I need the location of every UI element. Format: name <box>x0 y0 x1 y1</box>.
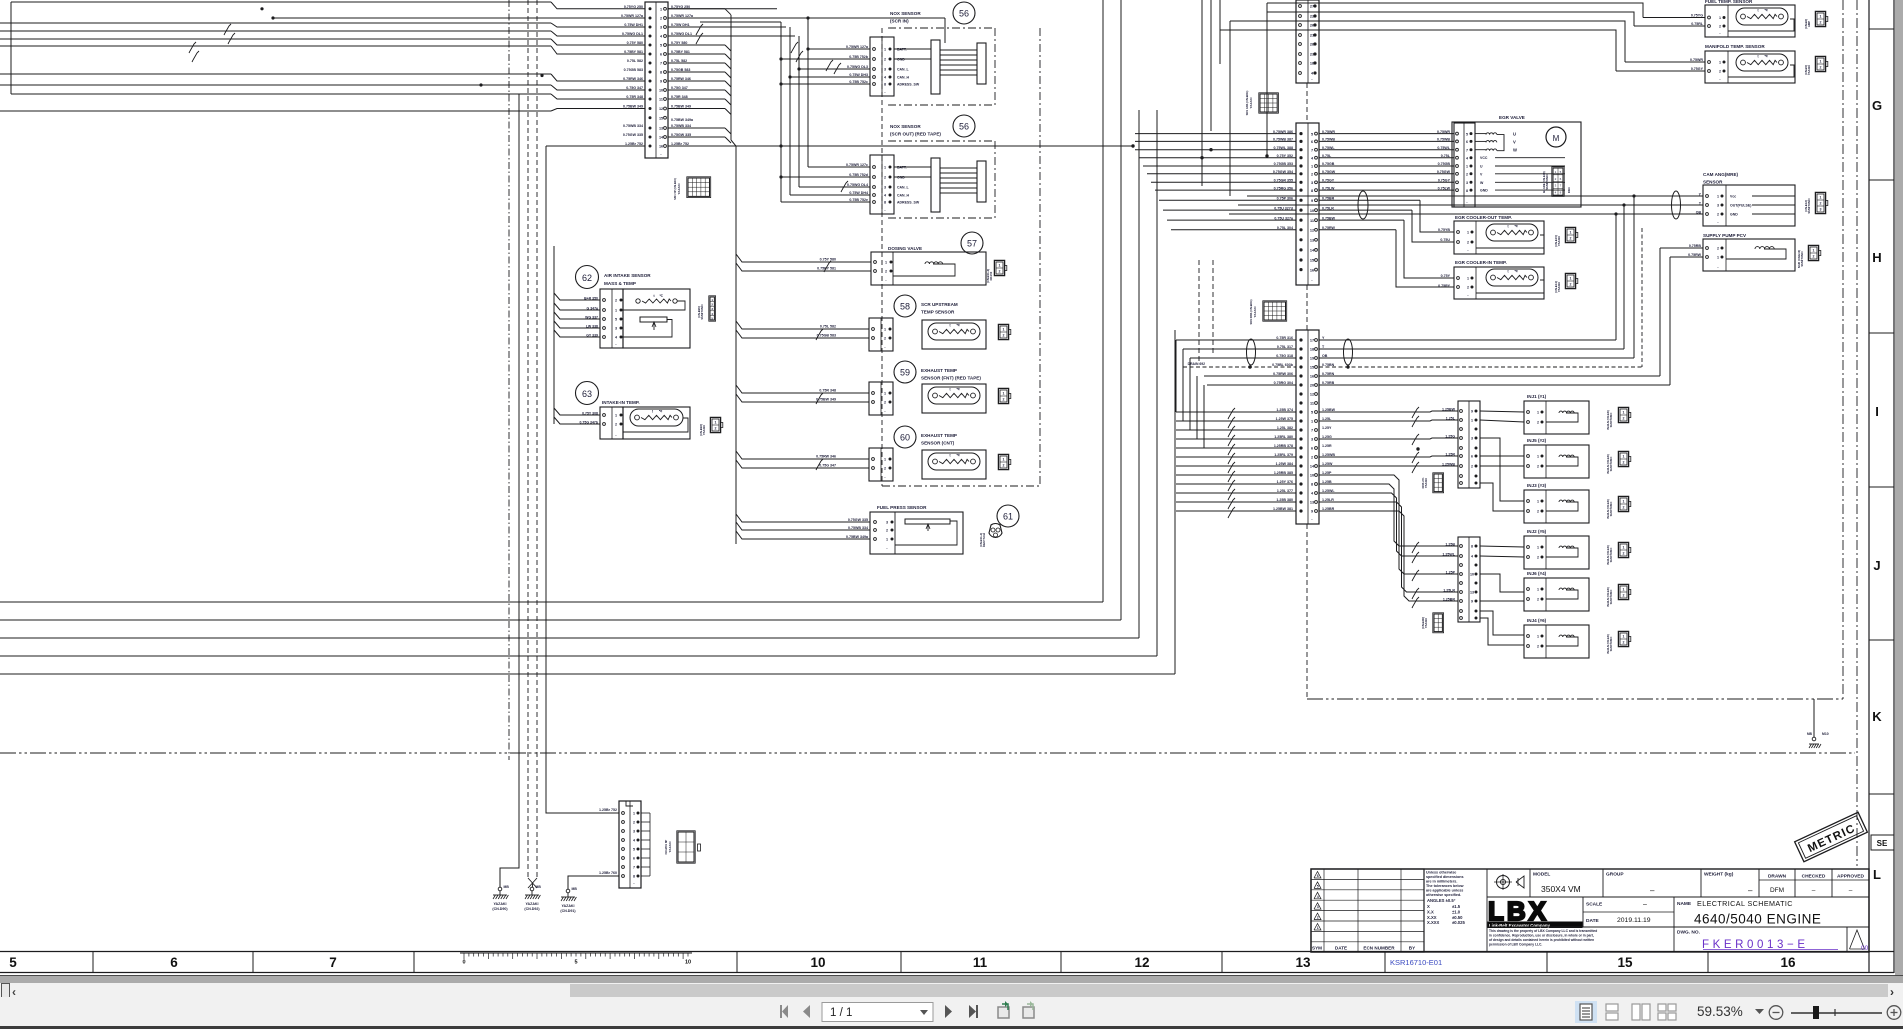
C4 right wires rows 17-20 with corners <box>1319 339 1616 341</box>
svg-text:3: 3 <box>884 68 886 72</box>
svg-text:0.75WR: 0.75WR <box>1690 58 1703 62</box>
connector table CN.ENG SM1 DNS mid <box>1263 301 1287 321</box>
svg-text:8: 8 <box>884 83 886 87</box>
svg-text:0: 0 <box>462 960 465 966</box>
C1 pin 11 <box>649 98 652 101</box>
NOX pin 2 <box>873 58 876 61</box>
svg-text:EGR COOLER-IN TEMP.: EGR COOLER-IN TEMP. <box>1455 260 1507 265</box>
svg-text:-: - <box>884 409 886 413</box>
svg-text:1: 1 <box>1537 500 1539 504</box>
svg-text:MB: MB <box>536 885 542 889</box>
wire ground D91 to connector G1 pin8 <box>568 876 619 889</box>
CAM wire shield ellipse <box>1358 191 1368 219</box>
svg-text:0.75L 582: 0.75L 582 <box>820 325 836 329</box>
svg-text:3: 3 <box>1466 181 1468 185</box>
svg-text:(CN.B20): (CN.B20) <box>697 306 701 318</box>
svg-text:13: 13 <box>1310 501 1314 505</box>
svg-text:-: - <box>884 208 886 212</box>
injector INJ6 (#4) coil <box>1559 588 1574 590</box>
svg-text:-: - <box>1717 220 1719 224</box>
svg-text:11: 11 <box>1310 219 1314 223</box>
svg-text:MASS & TEMP: MASS & TEMP <box>604 281 636 286</box>
C4 pin 10 <box>1299 473 1302 476</box>
drawn checked approved boxes <box>1759 879 1869 881</box>
svg-text:2: 2 <box>1719 70 1721 74</box>
svg-text:1: 1 <box>1317 926 1319 930</box>
svg-text:6: 6 <box>1311 140 1313 144</box>
wires mid connector A to INJ5 <box>1480 455 1524 457</box>
svg-text:8: 8 <box>884 201 886 205</box>
SE box <box>1871 835 1894 850</box>
svg-text:8: 8 <box>660 71 662 75</box>
vertical bus x=1139 <box>1138 110 1140 638</box>
svg-text:(SCR IN): (SCR IN) <box>890 19 909 24</box>
svg-text:14: 14 <box>1310 465 1315 469</box>
svg-text:SENSOR: SENSOR <box>1703 180 1723 185</box>
svg-text:3: 3 <box>1311 438 1313 442</box>
dashed enclosure left edge x=882 <box>881 28 883 486</box>
manifold temp wires <box>1625 61 1705 63</box>
svg-text:NOX SENSOR: NOX SENSOR <box>890 11 921 16</box>
svg-text:I: I <box>1875 404 1879 419</box>
C4 pin 11 <box>1299 401 1302 404</box>
riser CAM GND to C4 row17 <box>1615 214 1617 340</box>
svg-text:EGR VALVE: EGR VALVE <box>1499 115 1525 120</box>
svg-text:5: 5 <box>1466 132 1468 136</box>
svg-text:(CN.E6): (CN.E6) <box>1804 19 1808 29</box>
scrollbar top border <box>0 975 1903 977</box>
svg-text:(CN.E12): (CN.E12) <box>1804 200 1808 212</box>
junction dots near C1 <box>260 7 263 10</box>
svg-text:1: 1 <box>884 328 886 332</box>
svg-text:61: 61 <box>1003 512 1013 522</box>
svg-text:1.25Br 760: 1.25Br 760 <box>599 871 617 875</box>
svg-text:YAZAKI: YAZAKI <box>525 902 538 906</box>
wire GY 339 to air intake sensor <box>554 330 600 337</box>
bottom dark band <box>0 1026 1903 1029</box>
svg-text:t: t <box>1507 225 1509 229</box>
svg-text:SENSOR (FNT) (RED TAPE): SENSOR (FNT) (RED TAPE) <box>921 376 981 381</box>
svg-text:K: K <box>1872 709 1882 724</box>
svg-text:YAZAKI: YAZAKI <box>1253 306 1257 317</box>
svg-text:4: 4 <box>1471 555 1473 559</box>
svg-text:16: 16 <box>1310 268 1314 272</box>
svg-text:IN.RLN (CN.E3I): IN.RLN (CN.E3I) <box>1606 499 1610 519</box>
vertical bus x=1175 <box>1174 330 1176 674</box>
svg-text:0.75WR: 0.75WR <box>1437 130 1450 134</box>
svg-text:2: 2 <box>1311 173 1313 177</box>
svg-text:12: 12 <box>1310 229 1314 233</box>
svg-text:(CN.E5): (CN.E5) <box>1804 65 1808 75</box>
svg-text:U: U <box>1480 165 1483 169</box>
svg-text:1: 1 <box>615 309 617 313</box>
svg-text:5: 5 <box>633 848 635 852</box>
vertical cable bus dashed x=537 <box>536 0 538 878</box>
connector table YAZAKI CN.ENG near G1 <box>677 831 695 863</box>
svg-text:4: 4 <box>1311 72 1314 76</box>
EGR cooler-in connector icon <box>1565 273 1575 288</box>
dosing valve connector icon <box>994 260 1004 275</box>
svg-text:7: 7 <box>329 955 337 970</box>
svg-text:DWG. NO.: DWG. NO. <box>1677 930 1700 936</box>
svg-text:58: 58 <box>900 302 910 312</box>
svg-text:NAME: NAME <box>1677 901 1692 907</box>
svg-text:1: 1 <box>715 421 717 425</box>
wire from left edge y=111 <box>0 110 551 112</box>
svg-text:YAZAKI: YAZAKI <box>561 904 574 908</box>
svg-text:0.75G 347: 0.75G 347 <box>626 86 643 90</box>
fuel temp sensor block <box>1705 5 1795 37</box>
svg-text:4: 4 <box>1311 492 1314 496</box>
svg-text:DFM: DFM <box>1770 887 1784 894</box>
svg-text:2: 2 <box>1317 916 1319 920</box>
svg-text:0.75Y 580: 0.75Y 580 <box>820 258 836 262</box>
svg-text:2: 2 <box>884 467 886 471</box>
fuel temp wires <box>1643 17 1705 19</box>
svg-text:0.75RW: 0.75RW <box>1688 253 1702 257</box>
svg-text:IN.RLN (CN.E3I): IN.RLN (CN.E3I) <box>1606 634 1610 654</box>
injector INJ3 (#3) connector icon <box>1618 496 1628 511</box>
wire 1.25Br 752 row16 <box>546 145 645 147</box>
svg-text:CAN_H: CAN_H <box>897 193 910 197</box>
svg-text:1: 1 <box>1003 328 1005 332</box>
svg-text:2: 2 <box>885 270 887 274</box>
intake-in temp circle 63 <box>576 382 599 405</box>
svg-text:permission of LBX Company LLC.: permission of LBX Company LLC. <box>1489 943 1542 947</box>
svg-text:2: 2 <box>1717 213 1719 217</box>
svg-text:16: 16 <box>1780 955 1796 970</box>
svg-text:AIR INTAKE SENSOR: AIR INTAKE SENSOR <box>604 273 651 278</box>
wire bus bottom-left horizontals to middle verticals <box>0 601 1103 603</box>
intake-in temp connector <box>600 407 623 439</box>
svg-text:1: 1 <box>1537 588 1539 592</box>
fuel temp connector icon <box>1815 11 1825 26</box>
wire row2 long to x=945 <box>668 17 945 19</box>
svg-text:10: 10 <box>659 89 663 93</box>
svg-text:0.75G 347: 0.75G 347 <box>819 464 836 468</box>
svg-text:18: 18 <box>1310 62 1314 66</box>
svg-text:2: 2 <box>1623 641 1625 645</box>
C4 pin 6 <box>1299 446 1302 449</box>
right chevron scrollbar <box>1890 985 1894 999</box>
CAM sensor wires <box>1247 195 1703 197</box>
svg-text:(SCR OUT) (RED TAPE): (SCR OUT) (RED TAPE) <box>890 132 941 137</box>
C1 pin 12 <box>649 107 652 110</box>
svg-text:DOSING VALVE: DOSING VALVE <box>888 246 922 251</box>
svg-text:-: - <box>884 345 886 349</box>
svg-text:1: 1 <box>1466 165 1468 169</box>
svg-text:2: 2 <box>1537 598 1539 602</box>
air intake mass element (potentiometer) <box>640 317 667 322</box>
C1 pin 2 <box>649 17 652 20</box>
svg-text:IN.RLN (CN.E3I): IN.RLN (CN.E3I) <box>1606 545 1610 565</box>
fuel press sensor block <box>870 512 963 554</box>
svg-text:9: 9 <box>1311 510 1313 514</box>
C1 fan cascade vertical x=731 <box>730 15 732 140</box>
svg-text:–: – <box>1643 901 1647 908</box>
svg-text:0.75YG 250: 0.75YG 250 <box>624 5 643 9</box>
projection symbol box <box>1529 869 1531 897</box>
net 127 vertical x=808 from C1 row2 <box>807 18 809 167</box>
svg-text:ADRESS_SW: ADRESS_SW <box>897 200 920 204</box>
zoom in <box>1887 1006 1901 1020</box>
svg-text:X.X: X.X <box>1427 909 1434 914</box>
tolerance note block <box>1423 869 1425 952</box>
vertical bus x=1121 <box>1120 0 1122 620</box>
svg-text:1: 1 <box>1471 419 1473 423</box>
frame right letter band left line <box>1868 0 1870 973</box>
svg-text:4: 4 <box>660 35 663 39</box>
svg-text:YAZAKI: YAZAKI <box>677 183 681 194</box>
wire row3/4 to NOX verticals <box>668 26 786 28</box>
frame right letter band right line <box>1893 0 1895 973</box>
air intake sensor body <box>623 289 690 348</box>
zoom out <box>1769 1006 1783 1020</box>
svg-text:1: 1 <box>1311 420 1313 424</box>
svg-text:4: 4 <box>1555 190 1557 194</box>
svg-text:Vcc: Vcc <box>1730 195 1736 199</box>
injector INJ1 (#1) coil <box>1559 411 1574 413</box>
injector INJ5 (#2) connector icon <box>1618 451 1628 466</box>
injector INJ2 (#5) coil <box>1559 546 1574 548</box>
svg-text:W: W <box>1480 181 1484 185</box>
vertical bus x=1202 <box>1201 0 1203 186</box>
riser supply pump to C4 row16 <box>1659 248 1661 376</box>
svg-text:FUEL TEMP. SENSOR: FUEL TEMP. SENSOR <box>1705 0 1753 4</box>
svg-text:1: 1 <box>1537 546 1539 550</box>
svg-text:10: 10 <box>1310 209 1314 213</box>
svg-text:2019.11.19: 2019.11.19 <box>1617 917 1651 924</box>
frame bottom line above numbers <box>0 951 1894 953</box>
sensor 60 wires <box>736 451 869 459</box>
svg-text:7: 7 <box>633 866 635 870</box>
svg-text:1: 1 <box>1537 455 1539 459</box>
C1 twisted pair slashes left side <box>225 24 231 33</box>
wire from left edge y=94 <box>11 93 551 95</box>
sensor 59 connector icon <box>998 388 1008 403</box>
svg-text:0.75GW: 0.75GW <box>1437 170 1451 174</box>
C1 pin 15 <box>649 116 652 119</box>
EGR valve connector <box>1454 123 1475 207</box>
svg-text:℃: ℃ <box>1764 54 1768 58</box>
C3 pin 15 <box>1299 258 1302 261</box>
svg-text:57: 57 <box>967 239 977 249</box>
C3 pin 13 <box>1299 238 1302 241</box>
C1 right fan wires to cascade bus <box>668 8 725 10</box>
svg-text:2: 2 <box>1813 255 1815 259</box>
C3 pin 10 <box>1299 209 1302 212</box>
wire 0.75G 347b to intake-in temp <box>554 417 600 424</box>
svg-text:in confidence. Reproduction, u: in confidence. Reproduction, use or disc… <box>1489 934 1594 938</box>
svg-text:EXHAUST TEMP: EXHAUST TEMP <box>921 433 957 438</box>
svg-text:28: 28 <box>1310 43 1314 47</box>
air intake sensor connector <box>600 289 623 348</box>
svg-text:0.75BW 349: 0.75BW 349 <box>816 398 836 402</box>
svg-text:2: 2 <box>1717 247 1719 251</box>
svg-text:1: 1 <box>884 166 886 170</box>
svg-text:IN.RLN (CN.E3I): IN.RLN (CN.E3I) <box>1606 410 1610 430</box>
svg-text:7: 7 <box>1466 148 1468 152</box>
left chevron <box>12 985 16 999</box>
svg-text:NO.M01 8P: NO.M01 8P <box>664 840 668 855</box>
svg-text:EXHAUST TEMP: EXHAUST TEMP <box>921 368 957 373</box>
wires mid connector A to INJ3 <box>1480 438 1524 501</box>
svg-text:13: 13 <box>659 127 663 131</box>
svg-text:2: 2 <box>1623 506 1625 510</box>
svg-text:2: 2 <box>1537 556 1539 560</box>
svg-text:2: 2 <box>1537 510 1539 514</box>
svg-text:0.75Y 580: 0.75Y 580 <box>627 41 643 45</box>
svg-text:1: 1 <box>615 414 617 418</box>
C3 pin 4 <box>1299 156 1302 159</box>
wire row2 with junction dot <box>271 16 274 19</box>
vertical cable bus solid x=519 to ground D90 <box>500 94 519 887</box>
svg-text:INJ6 (#4): INJ6 (#4) <box>1527 571 1547 576</box>
C3 pin 1 <box>1299 164 1302 167</box>
C4 pin 8 <box>1299 482 1302 485</box>
injector INJ5 (#2) coil <box>1559 455 1574 457</box>
svg-text:15: 15 <box>1310 259 1314 263</box>
svg-text:DATE: DATE <box>1586 918 1600 924</box>
svg-text:8: 8 <box>1311 483 1313 487</box>
NOX pin 1 <box>873 48 876 51</box>
connector C4 20-pin (injector harness) <box>1296 330 1319 524</box>
svg-text:0.75BW 349a: 0.75BW 349a <box>671 118 694 122</box>
svg-text:12: 12 <box>1310 393 1314 397</box>
svg-text:0.75WL: 0.75WL <box>1437 146 1450 150</box>
svg-text:–: – <box>1849 887 1853 894</box>
svg-text:0.75RB: 0.75RB <box>1689 244 1702 248</box>
svg-text:INJ5 (#2): INJ5 (#2) <box>1527 438 1547 443</box>
svg-text:0.75R 348: 0.75R 348 <box>626 95 643 99</box>
svg-text:4: 4 <box>633 839 635 843</box>
svg-text:10: 10 <box>1470 573 1474 577</box>
svg-text:℃: ℃ <box>956 387 960 391</box>
svg-text:1: 1 <box>1570 231 1572 235</box>
svg-text:(CN.D90): (CN.D90) <box>492 907 508 911</box>
svg-text:13: 13 <box>1470 591 1474 595</box>
injector mid connector A <box>1458 401 1480 488</box>
dash-dot vertical inner frame x=1857 <box>1856 0 1858 866</box>
scale date box <box>1673 897 1675 927</box>
svg-text:59: 59 <box>900 368 910 378</box>
C4 pin 4 <box>1299 491 1302 494</box>
sensor 58 wires <box>736 321 869 329</box>
dash-dot harness box right x=1843 <box>1842 0 1844 699</box>
svg-text:9: 9 <box>1471 600 1473 604</box>
dosing valve coil <box>925 262 943 264</box>
C1 pin 8 <box>649 71 652 74</box>
injector INJ4 (#6) coil <box>1559 635 1574 637</box>
injector INJ6 (#4) connector icon <box>1618 584 1628 599</box>
svg-text:2: 2 <box>1467 241 1469 245</box>
C4 pin 15 <box>1299 365 1302 368</box>
sensor circle 59 <box>894 361 916 383</box>
svg-text:-: - <box>1311 517 1313 521</box>
vertical cable bus center-left (dash-dot) <box>508 0 510 760</box>
svg-text:5: 5 <box>9 955 17 970</box>
C3 pin 16 <box>1299 268 1302 271</box>
grid number ticks bottom <box>92 952 94 973</box>
svg-text:SM1 5P (CN.B10): SM1 5P (CN.B10) <box>673 178 677 200</box>
C4 pin 2 <box>1299 455 1302 458</box>
svg-text:3: 3 <box>884 186 886 190</box>
svg-text:22: 22 <box>1310 15 1314 19</box>
wire from left edge y=74 <box>0 73 551 75</box>
svg-text:(CN.D92): (CN.D92) <box>524 907 540 911</box>
svg-text:13: 13 <box>1295 955 1311 970</box>
svg-text:℃: ℃ <box>956 453 960 457</box>
svg-text:2: 2 <box>1820 202 1822 206</box>
NOX sensor circle 56 <box>953 115 975 137</box>
wire from left edge y=31 <box>0 30 551 32</box>
svg-text:27: 27 <box>1310 5 1314 9</box>
NOX harness symbol <box>931 158 940 212</box>
C4 pin 3 <box>1299 437 1302 440</box>
svg-text:3: 3 <box>1311 181 1313 185</box>
svg-text:-: - <box>1311 77 1313 81</box>
title block outer <box>1311 869 1869 952</box>
cable end X crossing to ground D92 <box>528 878 537 888</box>
svg-text:4: 4 <box>884 194 887 198</box>
twisted pair slash NOX2 <box>842 181 848 190</box>
svg-text:ADRESS_SW: ADRESS_SW <box>897 82 920 86</box>
C4 pin 9 <box>1299 509 1302 512</box>
model box <box>1602 869 1604 897</box>
vertical cable bus solid x=546 to connector G1 pin1 <box>546 146 619 813</box>
svg-text:SM1 ANS (CN.ENG): SM1 ANS (CN.ENG) <box>1245 90 1249 115</box>
svg-text:-: - <box>885 278 887 282</box>
svg-text:2: 2 <box>1537 645 1539 649</box>
svg-text:specified dimensions: specified dimensions <box>1426 875 1464 879</box>
next page button <box>945 1005 952 1018</box>
NOX pin 4 <box>873 76 876 79</box>
svg-text:1: 1 <box>1537 411 1539 415</box>
svg-text:are in millimeters.: are in millimeters. <box>1426 880 1457 884</box>
intake-in connector icon <box>710 417 720 432</box>
svg-text:BLGRE (CN.E16): BLGRE (CN.E16) <box>1542 171 1546 192</box>
wires mid connector B to INJ2 <box>1480 546 1524 547</box>
dosing valve block <box>871 252 986 285</box>
C1 pin 5 <box>649 44 652 47</box>
C4 pin 13 <box>1299 500 1302 503</box>
dash link C2 to C3 <box>1306 83 1308 120</box>
svg-text:2: 2 <box>1537 421 1539 425</box>
svg-text:H: H <box>1872 250 1881 265</box>
svg-text:10: 10 <box>1310 474 1314 478</box>
svg-text:t: t <box>652 410 654 414</box>
svg-text:J: J <box>1873 558 1880 573</box>
LBX logo <box>1582 897 1584 927</box>
wires mid connector B to INJ4 <box>1480 611 1524 635</box>
svg-text:0.75Y: 0.75Y <box>1441 274 1451 278</box>
svg-text:MB: MB <box>1807 732 1813 736</box>
svg-text:MB: MB <box>572 887 578 891</box>
svg-text:5: 5 <box>1311 132 1313 136</box>
svg-text:V: V <box>1480 172 1483 176</box>
NOX sensor connector <box>870 37 894 96</box>
vertical bus x=1157 <box>1156 110 1158 656</box>
intake-in temp body <box>623 407 690 439</box>
svg-text:t: t <box>1757 55 1759 59</box>
svg-text:1.25Br 752: 1.25Br 752 <box>625 142 643 146</box>
vertical bus x=1103 <box>1102 0 1104 602</box>
svg-text:9: 9 <box>660 80 662 84</box>
toolbar <box>0 997 1903 1026</box>
svg-text:0.75R 348: 0.75R 348 <box>819 389 836 393</box>
net DH vertical x=790 from C1 row3 <box>789 27 791 195</box>
svg-text:2: 2 <box>1537 465 1539 469</box>
